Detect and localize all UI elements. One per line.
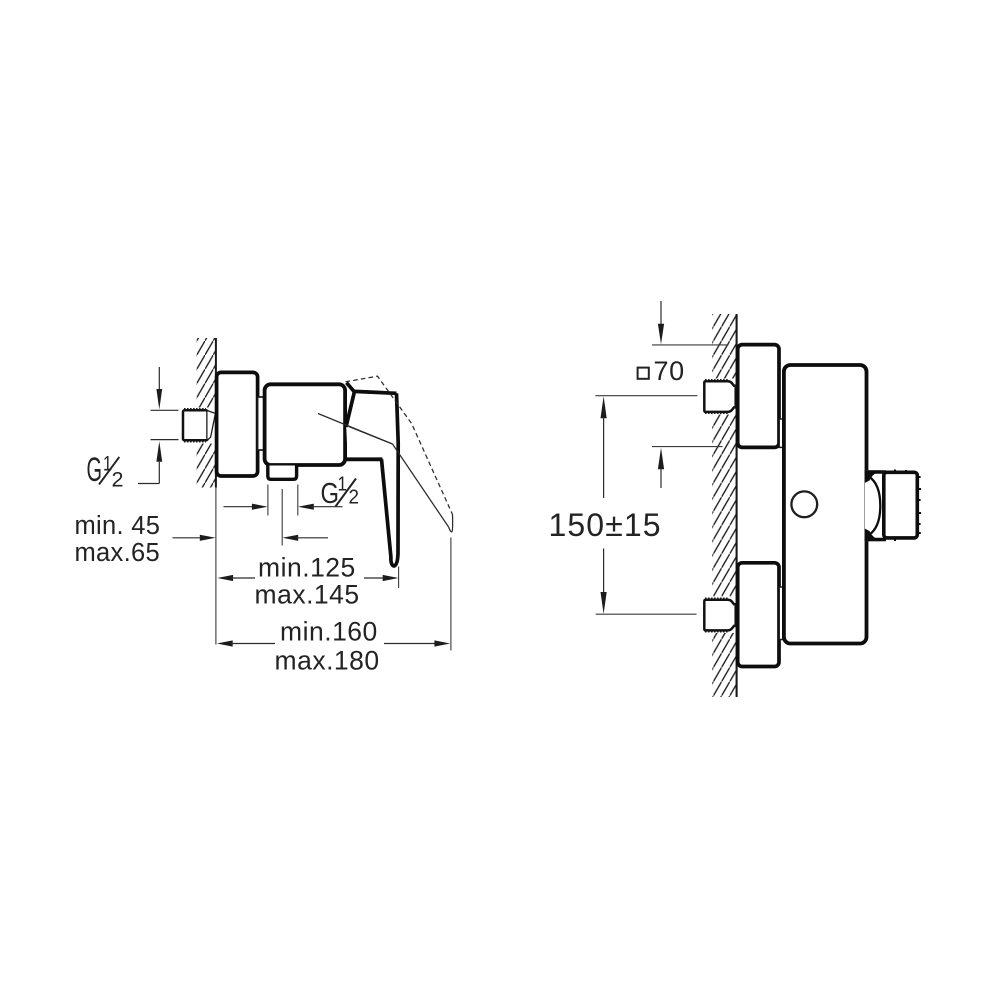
svg-text:150±15: 150±15: [549, 507, 662, 543]
bottom wall escutcheon: [738, 563, 779, 667]
svg-text:2: 2: [112, 469, 124, 492]
dim line min125: [217, 575, 398, 581]
outlet stub G1/2: [268, 466, 297, 480]
svg-text:min.160: min.160: [280, 617, 378, 647]
extension line handle tip: [398, 567, 400, 589]
mixer body (front view): [784, 365, 867, 644]
handle neck (front view): [865, 470, 887, 541]
extension line 150 top: [595, 395, 697, 397]
wall hatch (right view): [712, 314, 736, 697]
wall line (left view): [215, 338, 217, 488]
alt handle blade edge thin line: [393, 444, 449, 527]
label min.125 max.145: [255, 552, 360, 609]
wall line (right view): [736, 314, 738, 697]
handle knob (front view): [884, 470, 921, 542]
handle alternate position (dashed): [318, 376, 453, 532]
mixer body (left view): [265, 384, 346, 465]
top union nut: [704, 380, 736, 413]
svg-text:max.145: max.145: [255, 579, 360, 609]
extension line escutcheon bottom: [652, 446, 723, 448]
wall extension line (left view): [215, 488, 217, 645]
label G1/2 (wall inlet): [87, 451, 124, 492]
G1/2 vertical dim arrows (nipple): [138, 367, 179, 484]
pivot circle: [791, 491, 817, 517]
dim line outlet width (G1/2): [224, 504, 343, 510]
bottom union nut: [704, 598, 736, 631]
label min.160 max.180: [275, 617, 380, 676]
extension line dashed-handle tip: [450, 538, 452, 651]
extension lines under outlet: [268, 485, 298, 546]
handle inner contour line: [349, 427, 393, 445]
dim line min160: [217, 640, 450, 646]
svg-text:70: 70: [654, 356, 685, 386]
label G1/2 (outlet): [321, 474, 360, 511]
alt handle tip: [449, 515, 453, 532]
label min.45 max.65: [75, 512, 161, 567]
alt handle underside thin line: [318, 414, 393, 445]
threaded nipple G1/2: [183, 409, 208, 442]
escutcheon (left view): [217, 372, 258, 476]
dim line wall-to-outlet-center (min45): [173, 535, 329, 541]
label square-70: [638, 356, 685, 386]
bottom connector stub: [779, 587, 785, 640]
svg-text:min.125: min.125: [258, 552, 356, 582]
extension line escutcheon top: [652, 344, 729, 346]
nipple taper to wall: [208, 411, 216, 440]
up arrow to escutcheon bottom: [658, 448, 664, 488]
top wall escutcheon: [738, 345, 779, 448]
down arrow to escutcheon top: [658, 301, 664, 344]
svg-text:min. 45: min. 45: [75, 512, 161, 540]
svg-text:2: 2: [349, 487, 360, 509]
svg-text:max.65: max.65: [75, 539, 160, 567]
top connector stub: [779, 419, 785, 447]
150 dim vertical line with arrows: [601, 396, 607, 614]
S-union connector (left view): [258, 397, 265, 450]
handle lever (left view, solid): [346, 383, 398, 566]
svg-text:max.180: max.180: [275, 645, 380, 675]
extension line 150 bottom: [596, 613, 697, 615]
wall hatch (left view): [197, 338, 216, 488]
